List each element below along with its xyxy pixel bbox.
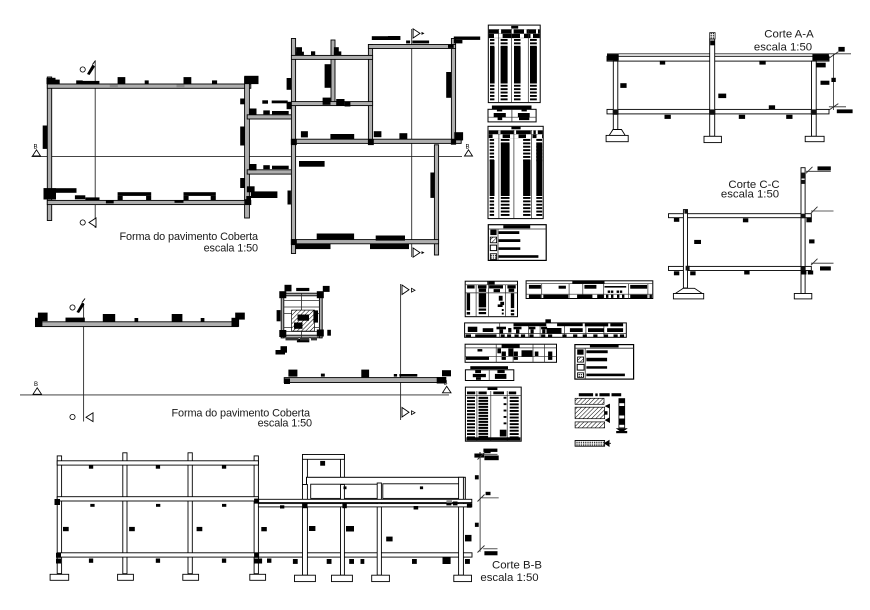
beam A-A roof (top slab beam) (607, 56, 829, 61)
beam P1-right (vertical edge beam) (245, 77, 250, 218)
table T1 column stripes top (490, 39, 537, 48)
beam H2 (top beam of upper-right room) (368, 45, 455, 49)
column marks C-C (694, 239, 814, 244)
table T3 column divider lines (499, 130, 532, 218)
level mark C-C floor (811, 259, 834, 271)
detail box center hatched opening (292, 310, 318, 331)
beam marks under C-C floor (674, 271, 813, 276)
beam H3 (middle divider beam) (291, 102, 372, 106)
table T4 frame (beam schedule A) (465, 281, 517, 317)
beam K1 (upper connector beam) (247, 115, 292, 119)
table T7 bottom bars (466, 357, 552, 360)
detail D1 leader arrows (604, 404, 610, 423)
table T7 header bar (502, 345, 520, 348)
svg-text:escala 1:50: escala 1:50 (258, 417, 312, 429)
footing B-B 6 (332, 575, 353, 581)
column B-B 4 (254, 456, 258, 574)
table T4 column bars (467, 293, 515, 310)
table T10 frame (steel schedule 3, tall) (465, 387, 521, 441)
table T6 middle row blobs (468, 327, 623, 334)
section line B-B lower (horizontal cut line) (20, 394, 449, 396)
section marker B left (letter + open triangle) (33, 145, 41, 157)
column B-B 1 (57, 456, 61, 574)
table T4 bottom stripes (467, 309, 515, 316)
mark below T10 (474, 449, 497, 458)
table T4 row 2 segments (467, 285, 516, 288)
detail D1 hatched layer 2 (575, 407, 605, 419)
beam S2 (lower strip beam, lower plan) (284, 378, 442, 383)
beam marks B-B mid row (90, 504, 284, 509)
column marks B-B left block (63, 527, 267, 531)
section line C (vertical cut line through upper plan) (94, 61, 96, 228)
table T2 contents (494, 109, 530, 120)
legend header bar (590, 345, 619, 348)
table T1 header bands (489, 29, 540, 38)
footing C-C right (794, 294, 812, 299)
beam marks B-B floor band right (302, 502, 471, 510)
legend box frame (575, 345, 634, 380)
table T1 column divider lines (499, 29, 529, 102)
table T10 dark bottom row (466, 437, 520, 440)
svg-text:escala 1:50: escala 1:50 (754, 42, 812, 54)
column B-B 5 (penthouse left, full height) (303, 485, 308, 576)
detail D2 (mesh strip) (575, 440, 611, 447)
svg-text:B: B (466, 145, 470, 151)
legend symbol 3 (open) (577, 364, 584, 370)
table T9 divider line (488, 370, 490, 381)
svg-text:B: B (34, 145, 38, 151)
penthouse beam mark (320, 461, 325, 466)
table T5 row 2 segments (529, 285, 647, 289)
parapet panel 2 (383, 484, 461, 499)
legend symbol 4 (hatched dense) (578, 373, 584, 378)
column mark left edge of plan 1 (43, 126, 47, 149)
value label on band (faint) (447, 500, 453, 503)
beam marks near H3 (323, 98, 351, 107)
legend box 2 text bars (499, 231, 539, 258)
column B-B 6 (penthouse right, full height) (341, 485, 345, 576)
table T3 frame (steel schedule 2) (488, 126, 543, 218)
legend box 2 frame (488, 225, 546, 261)
table T5 grid lines (526, 284, 653, 299)
footing C-C left (spread footing) (673, 288, 703, 299)
beam mark below section line B-B (corridor) (299, 161, 325, 167)
svg-text:Corte B-B: Corte B-B (492, 559, 542, 571)
beam marks at A-A floor (665, 105, 793, 119)
detail D1 hatched layer 3 (575, 422, 605, 428)
table T4 grid lines (465, 281, 517, 317)
beam marks above H1 (296, 47, 341, 55)
table T5 top bar (572, 281, 604, 284)
legend text bars (586, 350, 625, 376)
beam V1 (long left vertical beam of middle plan) (291, 39, 295, 254)
beam marks above H2 and V4 top (372, 36, 480, 48)
reference line above Corte A-A roof (607, 53, 851, 55)
legend box 2 header bar (503, 225, 530, 228)
column C-C left (683, 209, 687, 288)
section marker A2 bottom (402, 408, 415, 418)
table T3 column bars (490, 144, 543, 197)
column marks inside right edge of plan 1 (240, 99, 244, 189)
section marker A bottom (open triangle + tick) (413, 248, 424, 257)
section line C2 (vertical cut line, lower plan) (83, 303, 85, 422)
footing A-A right (805, 136, 824, 141)
table T7 row 2 blobs (478, 348, 553, 357)
dimension line right of Corte B-B (478, 453, 499, 553)
level mark A-A top right (812, 54, 829, 67)
parapet frame B-B right block (deep roof band) (307, 477, 466, 502)
beam P1-left (vertical edge beam of upper plan) (47, 77, 51, 221)
table T6 divider lines (465, 323, 627, 337)
joint marks B-B column 1 (55, 499, 62, 564)
detail box (tank slab plan) outer walls (281, 293, 322, 338)
table T3 header bands (489, 130, 543, 138)
column mark at V5 left face (430, 173, 434, 198)
column marks A-A (620, 78, 836, 98)
detail D1 hatched layer 1 (575, 398, 604, 404)
column mark inside room 1 at V2 (325, 64, 332, 88)
table T7 frame (beam schedule D) (465, 344, 556, 362)
beam marks on K1 (250, 109, 289, 116)
beam B-B mid left block (57, 497, 258, 501)
beam marks on K2 (250, 164, 289, 170)
legend box 2 symbol 4 (hatched dense) (490, 254, 496, 260)
footing B-B 2 (118, 574, 134, 580)
table T5 bottom bars (529, 295, 652, 299)
beam H4 (corridor beam) (291, 139, 461, 143)
table T6 top tab (545, 319, 551, 323)
beam marks on P1-top (rebar/section blocks) (47, 76, 259, 85)
beam H1 (top beam of upper-left room) (291, 55, 372, 59)
detail box corner column blocks (279, 291, 324, 337)
beam K2 (lower connector beam) (247, 170, 292, 174)
section line A (vertical cut line, upper plan) (411, 29, 413, 257)
table T3 column stripes top (490, 139, 542, 161)
section line A2 (vertical cut line, lower plan) (400, 284, 402, 420)
detail box outside marks (276, 285, 331, 355)
detail box inner grid lines (284, 293, 320, 338)
column B-B 2 (with stub above roof) (123, 453, 127, 574)
beam P1-bottom (horizontal bottom beam) (47, 200, 251, 204)
legend box 2 symbol column divider (497, 229, 499, 260)
detail D1 column strip (616, 399, 628, 434)
section marker B right (letter + open triangle) (465, 145, 473, 157)
footing B-B 1 (50, 574, 69, 581)
table T1 frame (steel schedule 1) (488, 25, 540, 103)
beam P1-top (horizontal top beam of upper plan) (47, 84, 251, 88)
beam B-B roof left block (57, 461, 258, 465)
svg-text:Corte A-A: Corte A-A (764, 28, 814, 40)
legend box 2 symbol 2 (hatched) (490, 237, 496, 243)
detail D1 title dashes (579, 393, 621, 396)
section marker C bottom (circle + open triangle) (80, 218, 96, 227)
beam C-C roof (669, 214, 812, 218)
table T10 grid lines (465, 391, 521, 441)
svg-text:escala 1:50: escala 1:50 (204, 242, 258, 254)
column marks left of V1 (287, 78, 292, 109)
table T10 column C dashes (500, 397, 507, 437)
table T10 header tab (488, 388, 498, 390)
beam marks on S1 (38, 313, 245, 322)
table T6 top row segments (514, 323, 624, 326)
beam B-B floor band right (lower line) (258, 504, 471, 507)
footing B-B 3 (183, 574, 199, 580)
footing B-B 8 (454, 575, 472, 581)
beam end blocks S2 (284, 370, 451, 384)
table T4 header tab (487, 281, 494, 284)
joint blocks on H4 at columns (291, 132, 463, 145)
table T6 funnel marks (497, 327, 548, 334)
footing B-B 7 (372, 575, 390, 581)
beam marks B-B roof row (89, 465, 226, 469)
table T3 header tab (511, 127, 520, 130)
column A-A right (812, 61, 817, 136)
legend symbol 2 (hatched) (578, 357, 584, 362)
section marker C2 top (circle + pen tip) (70, 299, 85, 314)
beam marks on S2 (288, 370, 417, 378)
table T2 grid lines (488, 109, 536, 122)
value label V-top-2 (faint beam text) (177, 85, 185, 88)
table T7 row lines (465, 348, 556, 356)
beam V2 (short vertical beam) (331, 40, 335, 105)
table T10 stripes column A (467, 397, 475, 439)
column B-B 3 (with stub above roof) (188, 453, 192, 574)
section marker A2 top (402, 285, 415, 295)
beam A-A floor (bottom slab beam) (607, 109, 829, 114)
legend box 2 header divider (488, 228, 546, 230)
footing A-A left (spread footing) (606, 130, 628, 142)
beam marks at H6 (bottom beam of lower room) (291, 234, 409, 250)
penthouse roof beam B-B (303, 455, 345, 460)
table T3 bottom stripes (490, 197, 543, 216)
beam S1 (upper strip beam, lower plan) (36, 322, 239, 327)
section marker C2 bottom (circle + open triangle) (70, 413, 93, 422)
table T4 row 3 blobs (479, 289, 515, 292)
table T9 frame (small schedule) (465, 370, 513, 381)
beam marks above connector (row near H3 level) (262, 100, 287, 103)
beam V5 (right vertical beam, lower room) (434, 145, 438, 255)
legend symbol 1 (solid fill) (577, 349, 583, 354)
table T1 header tab (511, 26, 518, 29)
column marks B-B right block (309, 526, 472, 541)
column mark at V1 left face lower (288, 191, 291, 205)
table T10 stripes column B (479, 397, 489, 438)
dimension line right of Corte A-A (829, 52, 846, 110)
column C-C right (extends above roof) (801, 168, 806, 294)
svg-text:escala 1:50: escala 1:50 (721, 188, 779, 200)
column B-B 7 (377, 483, 381, 575)
footing B-B 4 (250, 574, 266, 580)
column A-A left (613, 61, 618, 129)
section marker C top (circle + pen tip) (80, 61, 95, 76)
column B-B 8 (right edge) (459, 477, 464, 575)
table T9 header bar (470, 366, 508, 369)
beam marks B-B bottom row left (89, 559, 272, 563)
svg-text:escala 1:50: escala 1:50 (480, 572, 538, 584)
beam marks under A-A roof (660, 61, 766, 65)
section marker B2 right (443, 381, 452, 393)
table T1 bottom stripes (490, 85, 537, 101)
legend header divider (575, 347, 634, 349)
table T6 bottom row blobs (466, 334, 625, 337)
joint blocks C-C (686, 214, 806, 271)
legend box 2 symbol 1 (solid) (490, 230, 496, 236)
joint marks B-B column 4 (254, 499, 262, 564)
dimension marks B-B right (475, 449, 499, 555)
parapet panel 1 (311, 484, 379, 498)
beam end blocks S1 (35, 318, 239, 327)
table T2 header bar (492, 106, 532, 110)
table T9 contents (473, 370, 507, 380)
beam marks B-B parapet panels (344, 486, 424, 489)
level mark C-C roof (811, 207, 834, 214)
legend box 2 symbol 3 (open) (490, 245, 496, 251)
detail box tiny dimension text (286, 338, 318, 341)
dimension end marks A-A (837, 47, 853, 113)
beam marks under C-C roof (674, 218, 812, 223)
table T4 col3 blocks (498, 296, 504, 315)
beam C-C floor (669, 266, 812, 270)
table T10 stripes column D (510, 397, 519, 439)
joint blocks on A-A floor beam (613, 109, 817, 114)
beam mark bracket 2 (open stirrup on P1-bottom) (184, 192, 216, 200)
value label V-top-1 (faint beam text) (110, 85, 118, 88)
beam marks on P1-bottom (44, 186, 266, 204)
beam marks at lower-left of connector (246, 191, 277, 204)
beam H6 (bottom beam of lower room) (291, 240, 438, 244)
footing A-A middle (704, 136, 721, 142)
svg-text:Forma do pavimento Coberta: Forma do pavimento Coberta (119, 231, 259, 243)
footing B-B 5 (295, 575, 316, 581)
legend symbol column divider (584, 348, 586, 379)
table T7 divider lines (496, 344, 544, 362)
beam marks above H4 (301, 131, 407, 139)
table T5 mini-grid (605, 286, 627, 293)
section line B-B (upper plan, horizontal cut line) (32, 156, 463, 158)
table T5 frame (beam schedule B, wide) (526, 281, 653, 299)
beam V4 (right vertical beam, upper rooms) (451, 39, 455, 144)
table T1 column bars (490, 47, 537, 84)
section marker B2 left (33, 382, 42, 394)
beam B-B floor band right (upper line) (258, 499, 471, 502)
beam V3 (vertical beam) (368, 45, 372, 144)
column A-A middle (extends above roof) (710, 33, 715, 137)
table T2 frame (small schedule) (488, 109, 536, 122)
column mark at V4 left face (446, 72, 451, 98)
svg-text:B: B (34, 382, 38, 388)
table T6 frame (beam schedule C, wide) (465, 323, 627, 337)
section marker A top (open triangle + tick) (413, 29, 424, 38)
beam B-B bottom (full width) (57, 553, 472, 557)
beam marks B-B bottom row right (293, 557, 470, 564)
beam mark bracket 1 (open stirrup on P1-bottom) (118, 192, 152, 200)
penthouse columns B-B (303, 455, 345, 485)
level mark C-C top (806, 166, 831, 173)
table T10 header row (467, 392, 516, 395)
level mark A-A top left (607, 54, 619, 60)
